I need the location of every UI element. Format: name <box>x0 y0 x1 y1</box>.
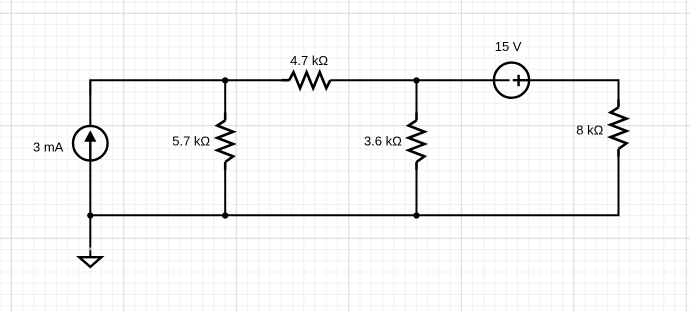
wire 5.7k branch bottom lead <box>224 162 226 215</box>
junction node A (R1 top) <box>222 77 228 83</box>
wire node B to V1 minus terminal <box>417 79 510 81</box>
wire bottom rail: node E to node D <box>225 214 416 216</box>
wire V1 plus terminal to top-right corner <box>529 79 618 81</box>
svg-text:3 mA: 3 mA <box>33 140 64 155</box>
junction node E (R3 bottom) <box>413 212 419 218</box>
resistor R1 5.7 kOhm (vertical) <box>217 113 233 170</box>
junction node D (R1 bottom) <box>222 212 228 218</box>
svg-text:4.7 kΩ: 4.7 kΩ <box>290 53 328 68</box>
wire bottom rail: node D to node C (ground node) <box>90 214 225 216</box>
svg-text:8 kΩ: 8 kΩ <box>576 123 603 138</box>
wire right rail top: corner down to R4 <box>618 80 619 107</box>
ground connection point marker <box>89 248 92 251</box>
svg-text:15 V: 15 V <box>495 39 522 54</box>
resistor R3 3.6 kOhm (vertical) <box>409 113 425 170</box>
ground symbol <box>79 257 101 267</box>
wire R2 right lead to node B <box>330 79 416 81</box>
wire right rail bottom: R4 down to corner, corner to bottom rail <box>417 149 619 215</box>
junction node C (ground junction) <box>87 212 93 218</box>
wire 3.6k branch bottom lead <box>416 162 418 215</box>
wire ground stem <box>89 215 91 257</box>
resistor R2 4.7 kOhm (horizontal) <box>282 72 331 88</box>
wire top rail left: corner to node A <box>90 80 225 95</box>
resistor R4 8 kOhm (vertical) <box>611 99 627 156</box>
current source I1 3 mA <box>73 126 108 161</box>
svg-text:5.7 kΩ: 5.7 kΩ <box>172 134 210 149</box>
wire 5.7k branch top lead <box>224 80 226 120</box>
wire 3.6k branch top lead <box>416 80 418 120</box>
voltage source V1 15 V <box>494 63 529 98</box>
svg-text:3.6 kΩ: 3.6 kΩ <box>364 134 402 149</box>
junction node B (R3 top) <box>413 77 419 83</box>
wire node A to R2 left lead <box>225 79 289 81</box>
wire left rail: top corner down to current source I1 <box>89 80 91 126</box>
wire left rail: current source to ground node C <box>89 160 91 215</box>
